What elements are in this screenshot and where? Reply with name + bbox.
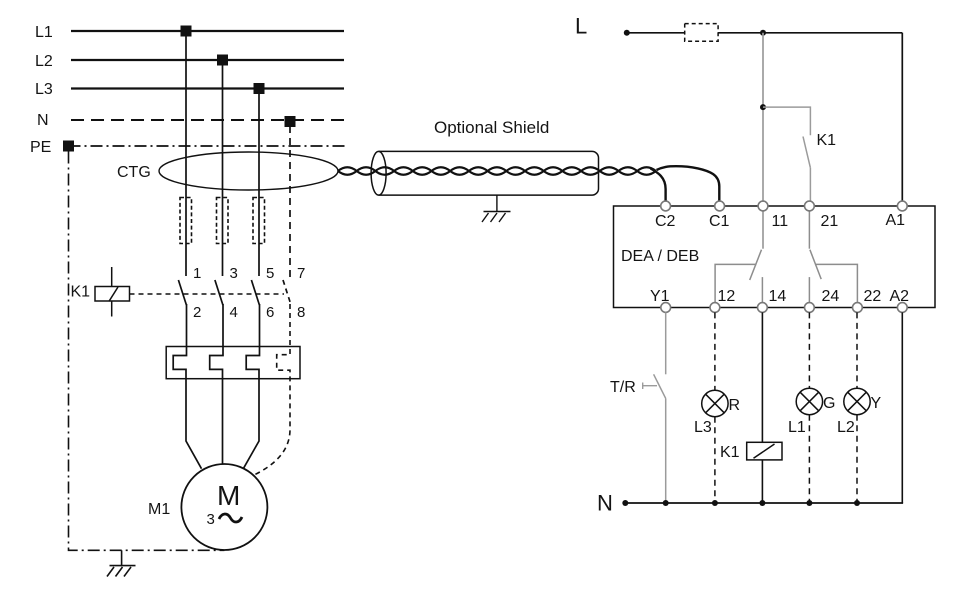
PE run to motor frame (dash-dot): [69, 152, 225, 551]
wire N bus: [625, 502, 903, 504]
lamp L2: [844, 388, 870, 414]
svg-text:DEA / DEB: DEA / DEB: [621, 248, 699, 265]
wire 14 to relay coil K1: [761, 312, 763, 442]
relay coil K1 box: [747, 442, 782, 460]
svg-text:22: 22: [864, 288, 882, 305]
contactor coil K1 box: [95, 287, 130, 302]
svg-text:PE: PE: [30, 139, 51, 156]
svg-text:K1: K1: [817, 132, 837, 149]
wire twisted pair to C1: [657, 166, 720, 203]
svg-text:R: R: [729, 397, 741, 414]
svg-text:C1: C1: [709, 213, 730, 230]
wire coil K1 to N: [761, 460, 763, 503]
wire lamp L3 to N (dashed): [714, 417, 716, 503]
svg-text:7: 7: [297, 265, 305, 282]
svg-text:A1: A1: [886, 212, 906, 229]
wire L1 rail: [71, 30, 344, 32]
wire 12 to lamp L3 (dashed): [714, 312, 716, 390]
wire L supply line: [627, 32, 903, 34]
svg-text:T/R: T/R: [610, 379, 636, 396]
junction dot N x Y1: [663, 500, 669, 506]
junction dot N x L2 lamp: [854, 500, 860, 506]
internal changeover blade 11-12/14 (gray): [750, 250, 762, 280]
terminal 12: [710, 303, 720, 313]
contactor K1 pole3 blade: [251, 280, 259, 305]
internal common 21 wire (gray): [808, 210, 810, 249]
terminal 21: [805, 201, 815, 211]
internal changeover blade 21-24/22 (gray): [810, 250, 821, 279]
wire phase3 through overload heater to motor: [243, 304, 259, 469]
svg-text:6: 6: [266, 304, 274, 321]
overload relay block outline: [166, 347, 300, 379]
terminal 11: [758, 201, 768, 211]
svg-text:24: 24: [822, 288, 840, 305]
lamp L1: [796, 388, 822, 414]
svg-text:M: M: [217, 480, 240, 511]
switch T/R blade: [654, 374, 666, 398]
contactor K1 aux blade (dashed): [283, 280, 290, 303]
internal stub to terminal 24 (gray): [808, 277, 810, 303]
wire neutral aux drop (dashed): [289, 126, 291, 277]
svg-text:Y: Y: [871, 395, 882, 412]
svg-text:A2: A2: [890, 288, 910, 305]
aux thermistor wire through overload (dashed) to motor: [253, 304, 290, 476]
svg-text:11: 11: [772, 213, 789, 230]
wire phase2 drop: [222, 60, 224, 276]
shield cylinder left end ellipse: [371, 151, 386, 195]
svg-text:8: 8: [297, 304, 305, 321]
svg-text:1: 1: [193, 265, 201, 282]
twisted pair wire B: [338, 167, 656, 175]
junction square on N: [285, 116, 296, 127]
wire L to terminal 11 (gray): [762, 33, 764, 202]
svg-text:L2: L2: [35, 53, 53, 70]
svg-text:L2: L2: [837, 419, 855, 436]
svg-text:5: 5: [266, 265, 274, 282]
wire A2 to N: [901, 312, 903, 503]
junction square on PE: [63, 141, 74, 152]
wire phase1 through overload heater to motor: [173, 304, 201, 469]
fuse F1 (dashed box): [685, 24, 718, 42]
svg-text:L: L: [575, 14, 587, 39]
svg-text:L1: L1: [788, 419, 806, 436]
internal stub to terminal 14 (gray): [761, 277, 763, 303]
wire phase3 drop: [258, 89, 260, 277]
ground symbol (left): [107, 566, 136, 577]
contactor K1 pole1 blade: [178, 280, 186, 305]
svg-text:21: 21: [821, 213, 839, 230]
svg-text:C2: C2: [655, 213, 676, 230]
wire K1 contact to terminal 21 (gray): [809, 168, 811, 202]
svg-text:Optional Shield: Optional Shield: [434, 118, 549, 137]
terminal 22: [853, 303, 863, 313]
coil K1 top stub: [111, 267, 113, 287]
wire phase2 through overload heater to motor: [210, 304, 223, 464]
junction square on L2: [217, 55, 228, 66]
svg-text:2: 2: [193, 304, 201, 321]
twisted pair wire A: [338, 167, 656, 175]
contactor K1 pole2 blade: [215, 280, 223, 305]
terminal C1: [715, 201, 725, 211]
switch T/R actuator bar: [643, 383, 657, 390]
junction square on L3: [254, 83, 265, 94]
svg-text:N: N: [597, 491, 613, 516]
svg-text:12: 12: [718, 288, 736, 305]
wire T/R to N (gray): [665, 398, 667, 503]
wire branch to K1 contact (gray): [763, 107, 810, 135]
junction dot N x L3 lamp: [712, 500, 718, 506]
shield ground stem: [496, 195, 498, 211]
terminal A2: [897, 303, 907, 313]
svg-text:L1: L1: [35, 24, 53, 41]
mechanical link K1 (dashed): [130, 293, 285, 295]
wire Y1 drop upper (gray): [665, 312, 667, 374]
terminal dot on L: [624, 30, 630, 36]
terminal C2: [661, 201, 671, 211]
wire L2 rail: [71, 59, 344, 61]
ground stem (left): [121, 550, 123, 565]
terminal A1: [897, 201, 907, 211]
wire L3 rail: [71, 87, 344, 89]
junction dot L x K1 branch: [760, 30, 766, 36]
CT window phase2 (dashed rect): [217, 198, 229, 244]
svg-text:K1: K1: [720, 444, 740, 461]
motor tilde symbol: [219, 514, 242, 522]
svg-text:G: G: [823, 395, 835, 412]
wire 24 to lamp L1 (dashed): [808, 312, 810, 388]
junction dot N x K1 coil: [759, 500, 765, 506]
motor M1 circle: [181, 464, 267, 550]
junction square on L1: [181, 26, 192, 37]
svg-text:M1: M1: [148, 501, 170, 518]
terminal dot on N: [622, 500, 628, 506]
wire 22 to lamp L2 (dashed): [856, 312, 858, 388]
svg-text:4: 4: [230, 304, 238, 321]
ground symbol (shield): [482, 212, 511, 223]
terminal 14: [758, 303, 768, 313]
svg-text:N: N: [37, 112, 49, 129]
lamp L3: [702, 390, 728, 416]
svg-text:CTG: CTG: [117, 164, 151, 181]
svg-text:3: 3: [230, 265, 238, 282]
CT window phase1 (dashed rect): [180, 198, 192, 244]
terminal Y1: [661, 303, 671, 313]
wire lamp L1 to N (dashed): [808, 415, 810, 503]
terminal 24: [805, 303, 815, 313]
relay module DEA/DEB outline: [614, 206, 936, 308]
coil K1 bottom stub: [111, 301, 113, 317]
CT window phase3 (dashed rect): [253, 198, 265, 244]
svg-text:L3: L3: [694, 419, 712, 436]
wire PE rail (dash-dot): [69, 145, 348, 147]
svg-text:K1: K1: [71, 284, 91, 301]
svg-text:L3: L3: [35, 81, 53, 98]
wire lamp L2 to N (dashed): [856, 415, 858, 503]
current transformer CTG ellipse: [159, 152, 338, 190]
wire N rail (dashed): [71, 119, 344, 121]
wire twisted pair to C2: [651, 169, 666, 204]
svg-text:Y1: Y1: [650, 288, 670, 305]
contact K1 blade (auxiliary): [803, 137, 810, 168]
junction dot N x L1 lamp: [806, 500, 812, 506]
junction dot K1 branch: [760, 104, 766, 110]
internal common 11 wire (gray): [762, 210, 764, 249]
internal bracket to terminal 12 (gray): [715, 264, 756, 303]
internal bracket to terminal 22 (gray): [816, 264, 858, 303]
svg-text:14: 14: [769, 288, 787, 305]
svg-text:3: 3: [207, 511, 215, 528]
shield cylinder body: [379, 151, 599, 195]
wire L to A1: [901, 33, 903, 202]
wire phase1 drop: [185, 31, 187, 276]
